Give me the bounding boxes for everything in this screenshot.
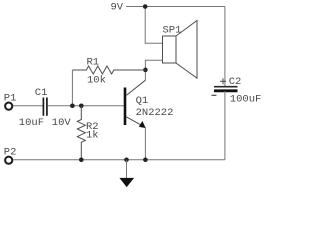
wire from 9V junction down and right to speaker top terminal	[145, 7, 162, 44]
svg-text:9V: 9V	[111, 2, 124, 14]
svg-text:1k: 1k	[86, 129, 99, 141]
transistor Q1 emitter arrowhead	[139, 121, 146, 128]
junction dot base node R1 branch	[70, 104, 75, 109]
wire R1 left vertical down to base node	[71, 70, 73, 106]
svg-text:C1: C1	[35, 87, 48, 99]
wire C2 bottom plate down to bottom rail	[224, 91, 226, 160]
wire emitter down to bottom rail	[144, 128, 146, 160]
junction dot collector node	[143, 68, 148, 73]
wire ground stub	[126, 160, 128, 178]
wire 9V rail to top-right corner	[126, 6, 225, 8]
svg-text:SP1: SP1	[163, 25, 182, 37]
capacitor C2 bottom plate	[214, 89, 238, 92]
wire bottom rail from P2 to bottom-right corner	[13, 159, 225, 161]
junction dot on 9V rail	[143, 4, 148, 9]
wire speaker bottom terminal left then down to collector node	[145, 60, 162, 80]
connector P2 circle	[5, 157, 12, 164]
ground symbol	[119, 178, 134, 187]
resistor R2 body zigzag vertical	[77, 106, 85, 160]
svg-text:10k: 10k	[87, 75, 106, 87]
svg-text:10V: 10V	[52, 117, 72, 129]
svg-text:10uF: 10uF	[19, 117, 44, 129]
svg-text:Q1: Q1	[136, 95, 149, 107]
transistor Q1 emitter lead diagonal	[126, 117, 145, 128]
speaker SP1 cone	[176, 21, 197, 79]
capacitor C2 minus sign	[212, 94, 217, 96]
capacitor C1 right plate	[46, 98, 48, 116]
junction dot ground branch	[124, 158, 129, 163]
capacitor C1 left plate	[42, 98, 44, 116]
svg-text:100uF: 100uF	[230, 93, 262, 105]
capacitor C2 plus sign	[220, 78, 226, 84]
junction dot emitter bottom	[143, 158, 148, 163]
wire P1 to C1 left plate	[13, 105, 43, 107]
transistor Q1 collector lead diagonal	[126, 80, 145, 95]
junction dot base node R2 branch	[79, 104, 84, 109]
wire C1 right plate to transistor base	[48, 105, 124, 107]
transistor Q1 base bar	[124, 88, 127, 126]
wire right vertical from 9V rail down to C2 top plate	[224, 7, 226, 87]
capacitor C2 top plate	[214, 86, 238, 88]
connector P1 circle	[5, 103, 12, 110]
speaker SP1 box	[163, 36, 177, 63]
junction dot R2 bottom	[79, 158, 84, 163]
resistor R1 body zigzag	[72, 66, 145, 74]
svg-text:2N2222: 2N2222	[136, 107, 174, 119]
